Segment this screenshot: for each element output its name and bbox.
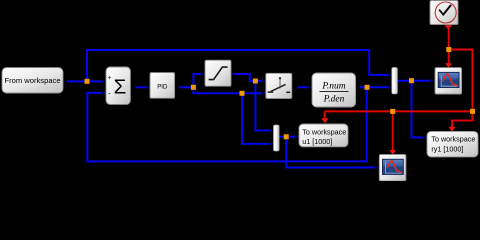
port arrow into mux M1 input 1 (270, 128, 274, 132)
node D: saturation output junction (253, 79, 258, 84)
wire: reference branch up from node A along top to mux M2 input 1 (87, 50, 388, 80)
port arrow into sum plus input (102, 79, 106, 83)
node F: transfer fcn output junction (365, 85, 370, 90)
node C: bypass line junction (240, 91, 245, 96)
block: bottom scope display (379, 155, 406, 181)
wire: node B up to saturation input (193, 74, 200, 87)
mux M2 combining reference and output for ry1 (392, 68, 398, 94)
port arrow into saturation input (201, 72, 205, 76)
svg-text:P.den: P.den (323, 95, 345, 105)
wire: saturation output through node D to manual switch top input (233, 74, 262, 81)
svg-text:From workspace: From workspace (4, 76, 60, 85)
svg-text:PID: PID (157, 84, 168, 91)
node K: red line junction to ry1 branch (470, 109, 475, 114)
port arrow into transfer fcn input (307, 85, 311, 89)
node E: mux M1 output junction (284, 134, 289, 139)
node A: reference branch junction (85, 79, 90, 84)
port arrow into manual switch top input (262, 79, 266, 83)
wire: feedback line from node F down left and into sum minus input (87, 89, 366, 162)
port arrow into mux M1 input 2 (270, 142, 274, 146)
wire: node C down to mux M1 input 2 (242, 93, 270, 144)
block: PID controller (150, 73, 175, 99)
port arrow into top scope input (430, 79, 434, 83)
node H: clock line junction (446, 47, 451, 52)
svg-text:u1 [1000]: u1 [1000] (302, 137, 332, 146)
svg-text:ry1 [1000]: ry1 [1000] (431, 144, 463, 153)
svg-text:To workspace: To workspace (431, 135, 475, 144)
wire: node K branch to To-workspace ry1 top (452, 111, 473, 127)
port arrow into mux M2 input 1 (388, 73, 392, 77)
wire: long red horizontal timing line (325, 110, 473, 112)
block: clock source (430, 1, 458, 25)
wire: node H right and down the right edge to node K (449, 50, 473, 112)
svg-text:+: + (108, 75, 112, 82)
port arrow into manual switch bottom input (262, 91, 266, 95)
wire: node B bypass line to manual switch bottom input (193, 87, 262, 93)
wire: node E branch down to bottom scope input (286, 137, 375, 168)
wire: PID output to node B (179, 86, 193, 88)
arrowhead: into To-workspace u1 top port (321, 118, 328, 123)
port arrow into To-workspace u1 input (295, 135, 299, 139)
wire: node G branch down to To-workspace ry1 input (412, 81, 423, 138)
svg-text:To workspace: To workspace (302, 128, 346, 137)
wire: mux M1 output through node E to To-workspace u1 input (279, 136, 295, 138)
block: To workspace ry1 [1000] (427, 131, 478, 157)
wire: node J drop into bottom scope top (392, 111, 394, 150)
port arrow into bottom scope input (375, 165, 379, 169)
wire: mux M2 output through node G to top scope input (398, 80, 431, 82)
arrowhead: clock output pointing down (444, 25, 452, 30)
arrowhead: into To-workspace ry1 top port (449, 127, 456, 132)
block: From workspace source (2, 68, 63, 93)
node B: PID output junction (191, 85, 196, 90)
node J: red line junction to bottom scope (390, 109, 395, 114)
port arrow into PID input (146, 85, 150, 89)
port arrow into mux M2 input 2 (388, 85, 392, 89)
block: top scope display (435, 68, 462, 94)
svg-text:P.num: P.num (321, 81, 345, 91)
port arrow into sum minus input (102, 91, 106, 95)
svg-text:Σ: Σ (114, 75, 127, 98)
node G: mux M2 output junction (409, 78, 414, 83)
mux M1 combining control signals for u1 (274, 125, 280, 151)
block: saturation (205, 60, 231, 86)
wire: From workspace output to sum plus input (67, 80, 102, 82)
wire: transfer fcn output through node F to mux M2 input 2 (360, 86, 389, 88)
block: transfer fcn P.num/P.den (312, 73, 356, 107)
wire: clock output down to node H and top scope (448, 28, 450, 64)
port arrow into To-workspace ry1 input (423, 135, 427, 139)
arrowhead: into bottom scope top port (389, 150, 396, 155)
wire: node D down to mux M1 input 1 (255, 81, 270, 131)
block: sum junction (sigma) with plus and minus inputs (106, 67, 130, 104)
block: manual switch (266, 73, 292, 98)
wire: sum output to PID input (136, 86, 146, 88)
wire: drop into To-workspace u1 top (324, 111, 326, 119)
arrowhead: into top scope top port (445, 63, 452, 68)
wire: manual switch output to transfer fcn input (297, 86, 307, 88)
block: To workspace u1 [1000] (299, 124, 348, 147)
